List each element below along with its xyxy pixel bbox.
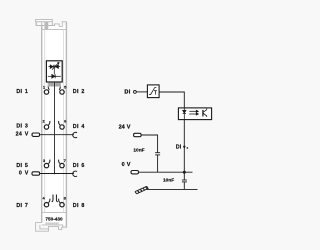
svg-text:DI 2: DI 2 — [73, 89, 85, 95]
svg-text:0 V: 0 V — [19, 171, 29, 177]
svg-text:750-430: 750-430 — [45, 217, 63, 222]
svg-text:DI: DI — [124, 90, 130, 96]
svg-text:0 V: 0 V — [122, 162, 131, 168]
svg-text:10nF: 10nF — [163, 178, 174, 184]
svg-text:DI 5: DI 5 — [16, 163, 28, 169]
svg-text:DI 4: DI 4 — [73, 124, 85, 130]
svg-text:DI: DI — [176, 144, 182, 150]
svg-text:DI 7: DI 7 — [16, 203, 28, 209]
svg-text:DI 6: DI 6 — [73, 163, 85, 169]
svg-text:DI 1: DI 1 — [16, 89, 28, 95]
svg-text:24 V: 24 V — [119, 125, 131, 131]
svg-text:DI 3: DI 3 — [16, 124, 28, 130]
svg-text:10nF: 10nF — [133, 148, 144, 154]
svg-text:24 V: 24 V — [16, 132, 29, 138]
svg-text:DI 8: DI 8 — [73, 203, 85, 209]
